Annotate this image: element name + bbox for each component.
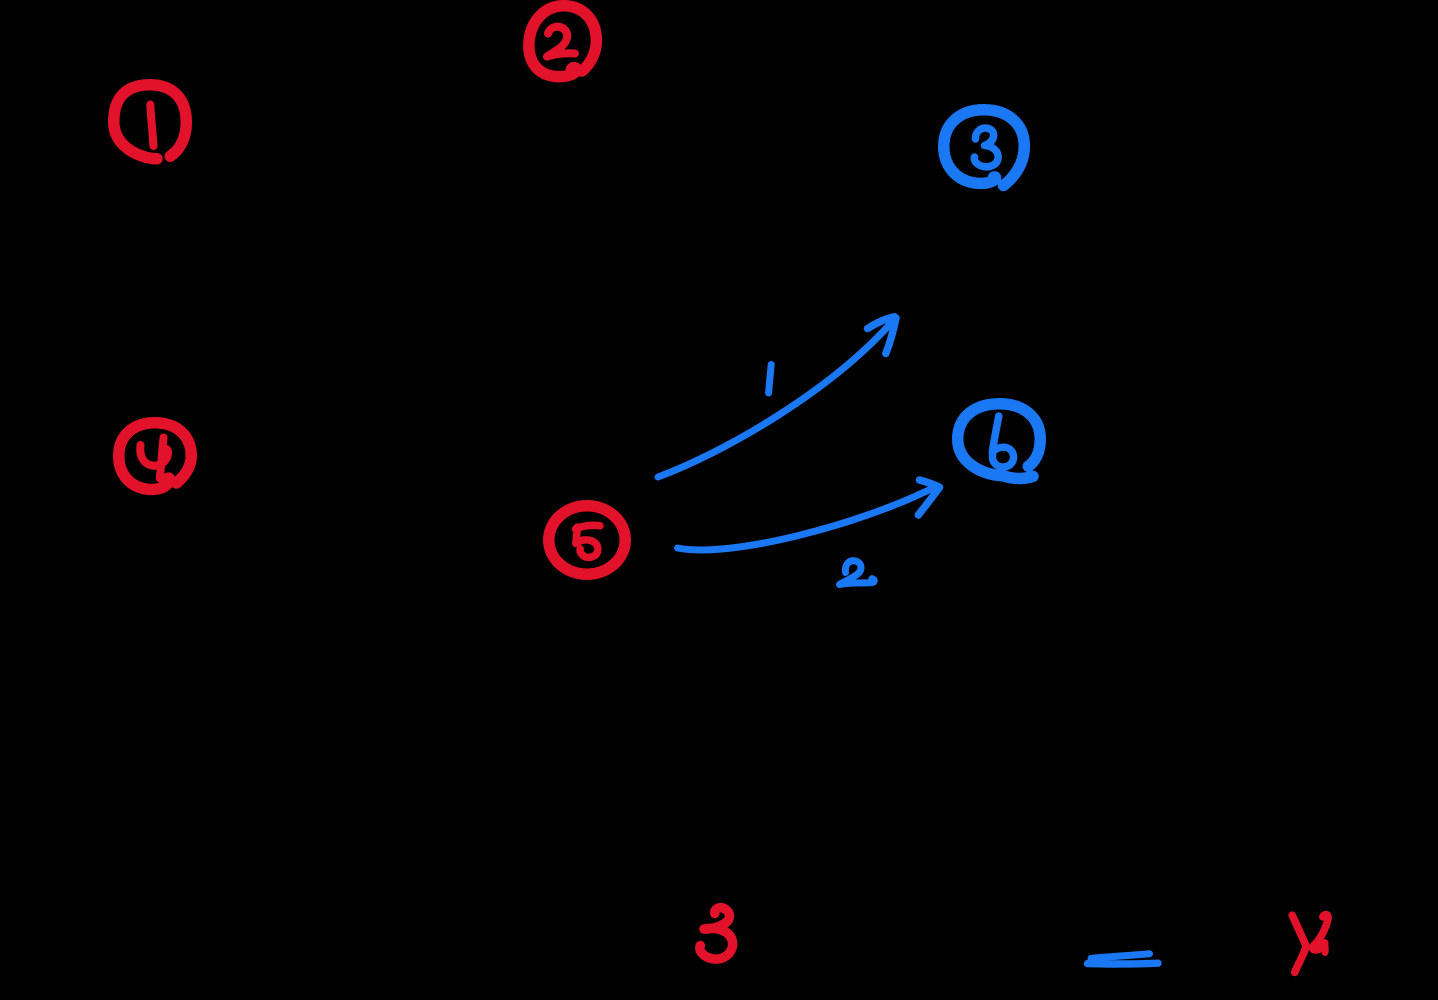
digit 5 top bar [576, 525, 601, 529]
digit 4 stem [160, 438, 164, 479]
red numeral 3 (bottom) [700, 908, 733, 959]
red numeral 4/y small tail [1322, 946, 1329, 953]
blue double dash bottom stroke [1088, 960, 1159, 968]
arrow 2 head upper barb [920, 480, 940, 487]
label 1 [769, 365, 772, 394]
node 3 circle (blue) [944, 110, 1025, 186]
node 1 circle (red) [114, 85, 187, 159]
node 5 circle (red) [549, 506, 626, 575]
digit 6 of node 6 [992, 416, 1013, 467]
digit 5 stem and bowl [576, 527, 598, 557]
node 6 circle (blue) [958, 404, 1041, 479]
arrow 2 head lower barb [918, 488, 939, 516]
arrow 2 shaft (5 to 6) [678, 487, 937, 550]
red numeral 4/y left branch and stem [1292, 915, 1306, 972]
digit 3 of node 3 [974, 128, 998, 167]
red numeral 4/y right branch (bottom right) [1313, 915, 1328, 950]
digit 2 of node 2 [547, 27, 575, 57]
digit 1 of node 1 [150, 105, 153, 147]
blue double dash top stroke [1091, 954, 1150, 959]
node 5 stroke-overlap at bottom [580, 572, 602, 575]
arrow 1 head upper barb [868, 317, 895, 329]
arrow 1 head lower barb [886, 318, 896, 354]
node 4 circle (red) [119, 423, 192, 490]
label 2 [840, 561, 875, 585]
digit 4 of node 4 [140, 445, 168, 466]
node 2 circle (red) [529, 6, 597, 77]
arrow 1 shaft (5 to 3) [658, 318, 896, 477]
